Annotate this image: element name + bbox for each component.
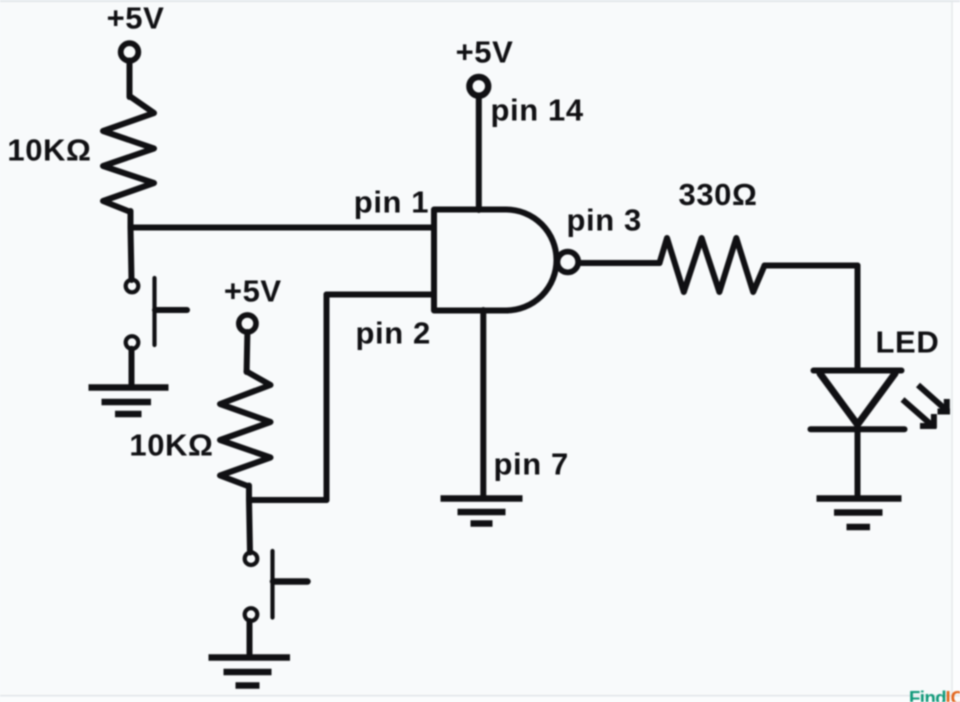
ground (pin 7) [441,499,523,524]
wire SW1 to ground [129,349,135,385]
svg-text:pin 14: pin 14 [491,93,584,128]
svg-text:10KΩ: 10KΩ [7,133,91,168]
wire +5V terminal to R2 [244,332,251,372]
resistor R3 [660,238,765,292]
svg-text:+5V: +5V [456,35,514,70]
svg-text:pin 7: pin 7 [494,447,569,482]
wire corner down to LED [855,266,861,370]
wire node B horizontal [249,497,327,503]
wire vertical up to pin 2 [324,295,330,501]
wire SW2 to ground [247,621,253,655]
ground (branch 2) [209,658,291,686]
wire pin 14 [476,96,482,211]
+5V terminal circle (branch 2) [239,315,256,332]
wire R3 to LED corner [765,263,858,269]
resistor R1 [103,96,154,212]
wire R1 to node A [128,211,134,228]
wire to pin 2 of gate [327,292,435,298]
svg-text:+5V: +5V [224,274,282,309]
wire pin 7 [480,310,486,496]
wire node B to switch SW2 [249,500,250,553]
ground (branch 1) [89,388,169,415]
wire LED to ground [855,427,861,495]
svg-text:+5V: +5V [107,1,165,36]
svg-text:330Ω: 330Ω [679,177,758,212]
svg-text:Find: Find [909,687,946,702]
wire pin 3 output [580,260,660,266]
+5V terminal circle (branch 1) [121,43,139,61]
NAND gate U1 body [434,210,557,311]
pushbutton SW2 [245,551,308,621]
LED light emission arrows [903,385,951,428]
svg-text:10KΩ: 10KΩ [129,427,213,462]
LED D1 [811,371,905,430]
svg-text:pin 1: pin 1 [354,185,429,220]
wire node A to pin 1 [131,225,435,231]
wire node A to switch SW1 [131,228,132,281]
svg-text:LED: LED [876,325,940,360]
resistor R2 [220,372,271,487]
FindIC watermark [909,687,960,702]
svg-text:IC: IC [946,687,960,702]
wire R2 to node B [246,486,252,501]
ground (LED) [817,499,902,528]
wire +5V terminal to R1 [127,61,133,98]
NAND gate inversion bubble [557,252,578,273]
pushbutton SW1 [126,278,187,349]
svg-text:pin 2: pin 2 [356,315,431,350]
+5V terminal circle (pin 14) [469,77,488,96]
svg-text:pin 3: pin 3 [567,203,642,238]
